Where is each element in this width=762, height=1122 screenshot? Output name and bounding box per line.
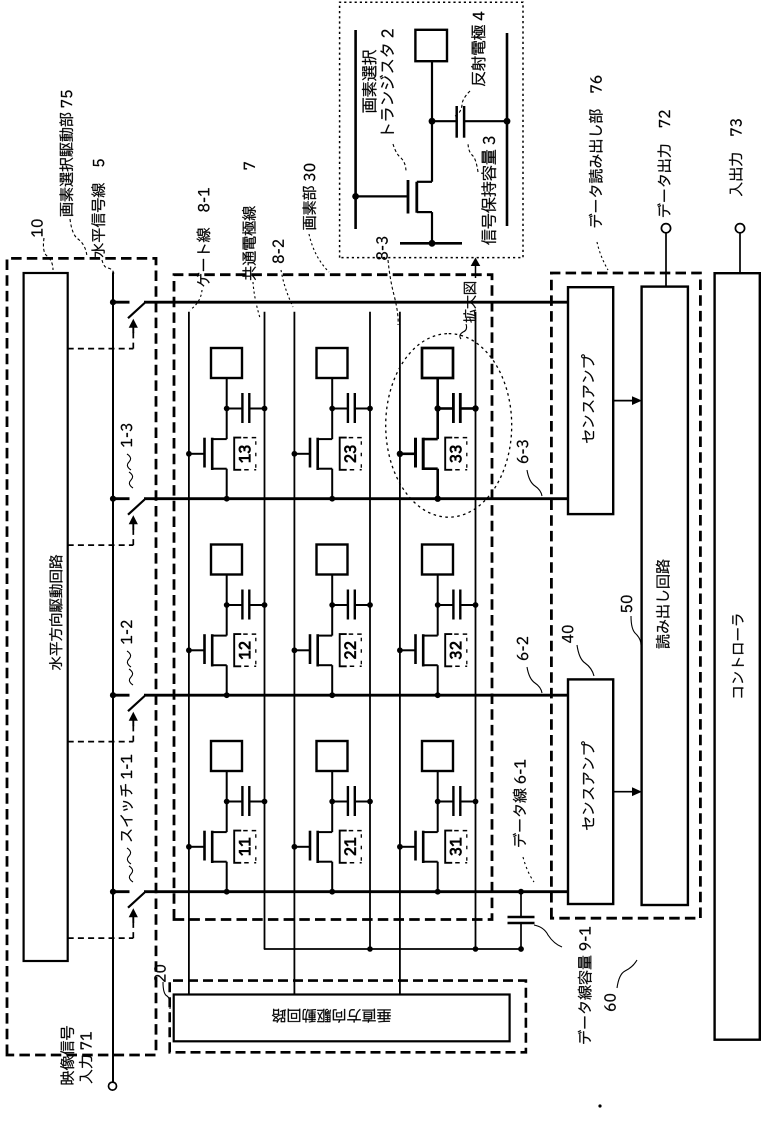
label: data line 6-2 bbox=[517, 637, 542, 693]
wire: gate line 8-1 bbox=[188, 312, 190, 995]
pixel cell 13: select transistor, storage capacitor, reflective electrode bbox=[186, 348, 267, 502]
wire: data line below switch 1-1 on data line 6-1 down to sense amp bbox=[144, 890, 568, 893]
dashed control line from drive circuit to switch on reference line with arrow bbox=[68, 319, 138, 349]
label: pixel portion 30 bbox=[303, 164, 330, 272]
dotted ellipse: enlargement marker around pixel cell 33 bbox=[386, 334, 512, 518]
pixel cell 23: select transistor, storage capacitor, reflective electrode bbox=[292, 348, 373, 502]
label 50 with leader bbox=[621, 596, 641, 646]
pixel cell 33: select transistor, storage capacitor, reflective electrode bbox=[397, 348, 479, 502]
wire: horizontal signal line 5 bbox=[112, 272, 114, 1082]
label: common electrode line 7 bbox=[242, 162, 260, 318]
label 60 with leader bbox=[604, 960, 637, 1011]
pixel cell 21: select transistor, storage capacitor, reflective electrode bbox=[292, 741, 373, 895]
wire: data line 6-3 stub (inset, vertical) bbox=[400, 242, 462, 245]
label: data line 6-1 (deta-sen 6-1) bbox=[513, 760, 534, 882]
capacitor 9-1: data line capacitance on line 6-1 bbox=[508, 889, 535, 952]
controller box (kontorora) bbox=[715, 273, 760, 1039]
label: switch 1-1 (suitchi 1-1) with tilde leader bbox=[120, 755, 133, 882]
vertical-direction drive circuit box (suichoku hoko kudo kairo) bbox=[174, 995, 510, 1042]
wire: common electrode line 7 (row 3) bbox=[475, 312, 477, 949]
dashed box around vertical drive circuit 20 bbox=[170, 981, 526, 1053]
label: horizontal signal line 5 bbox=[91, 159, 114, 274]
dashed control line from drive circuit to switch 1-3 on data line 6-3 with arrow bbox=[68, 515, 138, 545]
label 10 with dashed leader to box 10 bbox=[31, 220, 53, 271]
switch on reference line bbox=[113, 302, 145, 318]
wire: gate line 8-3 inside inset bbox=[354, 30, 357, 229]
label: data output 72 bbox=[657, 110, 671, 217]
terminal: video signal input 71 (open circle) bbox=[109, 1082, 117, 1090]
pixel cell 11: select transistor, storage capacitor, reflective electrode bbox=[186, 741, 267, 895]
switch 1-2 on data line 6-2 bbox=[113, 695, 145, 711]
label: input/output 73 bbox=[729, 119, 743, 196]
pixel cell 12: select transistor, storage capacitor, reflective electrode bbox=[186, 545, 267, 699]
node: junction dot, signal line / switch 1-1 on data line 6-1 bbox=[110, 889, 116, 895]
horizontal-direction drive circuit box (suihei hoko kudo kairo) bbox=[24, 273, 68, 961]
dashed control line from drive circuit to switch 1-1 on data line 6-1 with arrow bbox=[68, 908, 138, 938]
label: reflective electrode 4 (inset) bbox=[455, 12, 485, 116]
dotted inset box: enlarged view of pixel cell bbox=[340, 2, 523, 257]
node: junction dot, signal line / switch 1-3 on data line 6-3 bbox=[110, 496, 116, 502]
label 20 with leader bbox=[154, 965, 170, 1009]
wire: common electrode line 7 (row 2) bbox=[369, 312, 371, 949]
label: data readout section 76 bbox=[589, 76, 608, 270]
wire: data line below switch 1-3 on data line 6-3 down to sense amp bbox=[144, 497, 568, 500]
readout circuit box (yomidashi kairo) bbox=[642, 287, 688, 905]
node: bus/common line row3 junction bbox=[473, 946, 479, 952]
label: 8-3 (inset gate line) bbox=[376, 237, 398, 325]
label: switch 1-2 with tilde leader bbox=[121, 621, 133, 686]
wire: drain to electrode node (inset) bbox=[429, 61, 436, 182]
pixel cell 32: select transistor, storage capacitor, reflective electrode bbox=[397, 545, 478, 699]
capacitor 3: signal holding capacitance (inset) bbox=[432, 106, 510, 138]
wire: source to data line stub (inset) bbox=[429, 212, 436, 247]
wire: common electrode bus (left vertical) bbox=[264, 948, 521, 950]
wire: data line below switch 1-2 on data line 6-2 down to sense amp bbox=[144, 694, 568, 697]
wire: common electrode line (inset bottom) bbox=[506, 33, 509, 226]
pixel cell 31: select transistor, storage capacitor, reflective electrode bbox=[397, 741, 478, 895]
dashed control line from drive circuit to switch 1-2 on data line 6-2 with arrow bbox=[68, 712, 138, 742]
label 40 with leader bbox=[562, 626, 594, 677]
label: video signal input 71 (eizo shingo nyuryoku 71) bbox=[60, 1026, 92, 1084]
label: gate line 8-1 bbox=[190, 188, 210, 310]
dashed box 30: pixel portion (gaso-bu) bbox=[174, 275, 492, 920]
wire: gate line 8-3 bbox=[399, 312, 401, 995]
label: signal holding capacitance 3 (inset) bbox=[468, 137, 496, 245]
switch 1-1 on data line 6-1 bbox=[113, 892, 145, 908]
wire: gate line 8-2 bbox=[293, 312, 295, 995]
sense amplifier box (left, for 6-1/6-2) bbox=[568, 679, 613, 904]
node: junction dot, signal line / switch on reference line bbox=[110, 299, 116, 305]
switch 1-3 on data line 6-3 bbox=[113, 499, 145, 515]
label: 8-2 bbox=[273, 240, 294, 307]
terminal: data output 72 bbox=[661, 224, 670, 288]
stray dot mark bbox=[598, 1104, 601, 1107]
label: pixel selection transistor 2 (inset) bbox=[362, 29, 406, 172]
label: switch 1-3 with tilde leader bbox=[121, 424, 133, 488]
label: data line capacitance 9-1 (deta-sen yoryo 9-1) bbox=[534, 925, 592, 1044]
label: kakudai-zu (enlarged view) with arrow to inset bbox=[460, 258, 480, 340]
label: data line 6-3 bbox=[517, 440, 542, 496]
node: bus/common line row2 junction bbox=[367, 946, 373, 952]
reflective electrode 4 square (inset) bbox=[415, 30, 447, 61]
wire: data line below switch on reference line down to sense amp bbox=[144, 301, 568, 304]
label: pixel selection drive section 75 bbox=[60, 91, 88, 258]
wire: common electrode line 7 (row 1) bbox=[264, 312, 266, 949]
dashed box 10: pixel-selection drive section (gasosentaku kudo-bu 75) bbox=[7, 258, 156, 1055]
sense amplifier box (right, for 6-3/ref) bbox=[568, 287, 613, 514]
dashed box: data readout section 76 bbox=[551, 273, 700, 918]
arrow: right sense amp to readout circuit bbox=[613, 396, 642, 405]
pixel cell 22: select transistor, storage capacitor, reflective electrode bbox=[292, 545, 373, 699]
terminal: input/output 73 bbox=[735, 224, 744, 274]
arrow: left sense amp to readout circuit bbox=[613, 787, 642, 796]
transistor 2: pixel selection transistor (inset) bbox=[352, 180, 432, 214]
node: junction dot, signal line / switch 1-2 on data line 6-2 bbox=[110, 692, 116, 698]
